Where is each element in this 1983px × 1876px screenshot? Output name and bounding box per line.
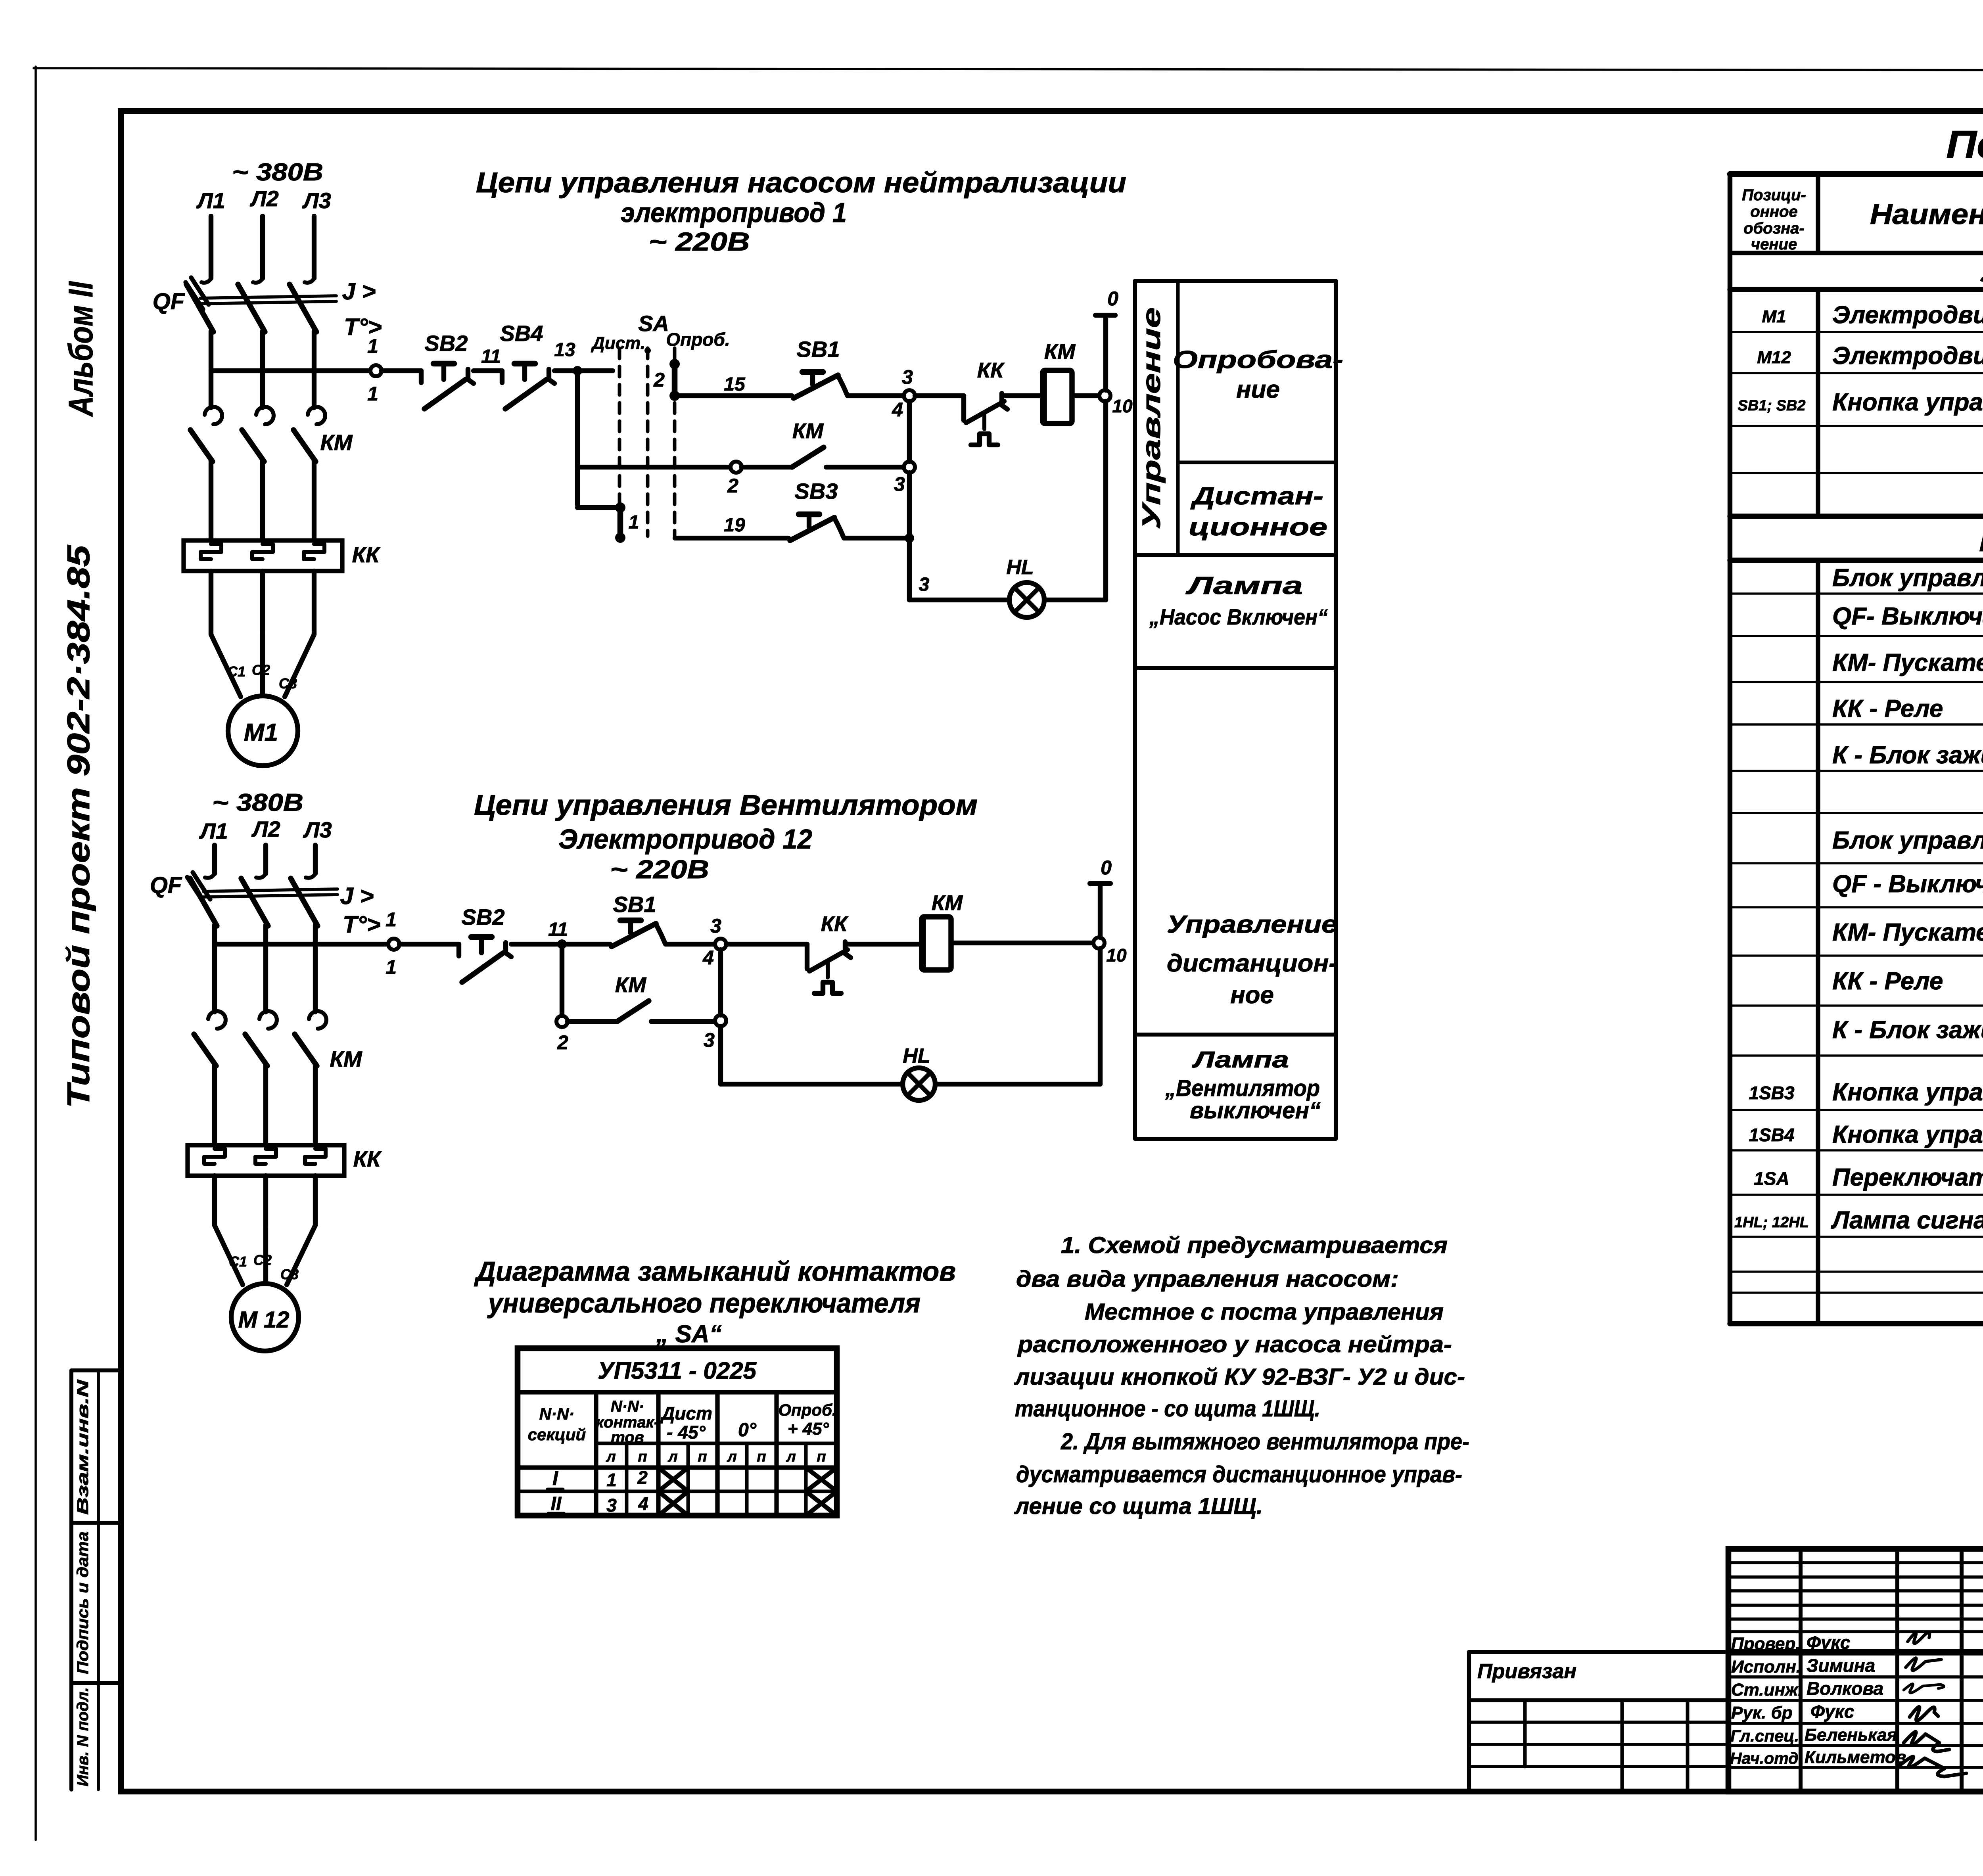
vertical to lamp row circuit 2	[718, 1026, 723, 1084]
svg-text:Блок управления: Блок управления	[1832, 564, 1983, 592]
selector switch SA dashed lines	[618, 348, 621, 536]
svg-text:дистанцион-: дистанцион-	[1167, 950, 1337, 977]
svg-text:10: 10	[1106, 945, 1127, 966]
svg-text:Кнопка управления: Кнопка управления	[1832, 389, 1983, 416]
vertical node10 to lamp row circuit 2	[1098, 949, 1103, 1084]
svg-text:SB1: SB1	[613, 892, 656, 917]
svg-text:М 12: М 12	[238, 1307, 290, 1333]
svg-text:КК - Реле: КК - Реле	[1832, 695, 1943, 722]
svg-text:4: 4	[892, 399, 903, 421]
svg-text:1: 1	[629, 512, 639, 533]
svg-text:4: 4	[702, 947, 714, 969]
SA contact 1 bar	[615, 502, 625, 513]
svg-text:л: л	[727, 1449, 737, 1465]
svg-text:Л3: Л3	[302, 188, 331, 213]
svg-text:Дист.: Дист.	[591, 333, 645, 353]
svg-text:HL: HL	[1006, 556, 1034, 579]
breaker QF circuit 1 pole L2	[260, 216, 265, 278]
svg-text:Ст.инж.: Ст.инж.	[1731, 1680, 1803, 1700]
svg-text:ное: ное	[1230, 981, 1274, 1009]
svg-text:онное: онное	[1750, 203, 1797, 220]
svg-text:Фукс: Фукс	[1810, 1701, 1854, 1722]
motor M12	[231, 1284, 299, 1351]
svg-text:13: 13	[554, 339, 575, 360]
title block vertical lines signature part	[1799, 1549, 1803, 1792]
svg-text:Электродвигатель: Электродвигатель	[1832, 301, 1983, 329]
svg-text:QF: QF	[150, 872, 182, 898]
svg-text:два вида управления насосом: два вида управления насосом:	[1016, 1266, 1399, 1292]
svg-text:Кнопка управления: Кнопка управления	[1832, 1121, 1983, 1148]
svg-text:Взам.инв.N: Взам.инв.N	[74, 1379, 92, 1515]
svg-text:SB2: SB2	[425, 331, 468, 356]
svg-text:SB4: SB4	[500, 321, 543, 346]
svg-text:Волкова: Волкова	[1807, 1678, 1883, 1699]
svg-text:Подпись и дата: Подпись и дата	[74, 1531, 92, 1674]
SA closed contact X marks	[658, 1468, 688, 1491]
svg-text:J >: J >	[340, 883, 374, 909]
contactor KM main contacts circuit 2 pole L3	[309, 1011, 326, 1029]
svg-text:Цепи управления Вентилятором: Цепи управления Вентилятором	[474, 789, 978, 821]
svg-text:КМ: КМ	[330, 1046, 362, 1071]
thermal relay KK heater box circuit 1	[184, 540, 342, 571]
SA table row divider	[518, 1490, 837, 1493]
svg-text:п: п	[638, 1449, 647, 1465]
wire KK to KM coil circuit 2	[847, 942, 922, 947]
breaker QF circuit 2 pole L1	[212, 845, 217, 874]
breaker QF circuit 2 pole L3	[313, 845, 318, 874]
svg-text:КК - Реле: КК - Реле	[1832, 968, 1943, 995]
sheet edge line left	[35, 67, 37, 1840]
svg-text:1: 1	[385, 908, 397, 931]
svg-text:J >: J >	[342, 278, 376, 305]
svg-text:0: 0	[1101, 857, 1112, 879]
svg-text:„Насос Включен“: „Насос Включен“	[1149, 604, 1328, 629]
neutral bus 0 circuit 1	[1095, 313, 1115, 318]
svg-text:2: 2	[637, 1467, 648, 1488]
svg-text:Л3: Л3	[303, 817, 332, 842]
svg-text:11: 11	[548, 919, 568, 940]
svg-text:п: п	[817, 1449, 826, 1465]
svg-text:2: 2	[653, 369, 665, 391]
breaker QF circuit 1 pole L1	[209, 216, 213, 278]
svg-text:1SB4: 1SB4	[1749, 1125, 1794, 1145]
svg-text:КК: КК	[821, 912, 849, 936]
junction 11 circuit 2	[557, 939, 567, 949]
svg-text:танционное - со щита 1ШЩ.: танционное - со щита 1ШЩ.	[1015, 1396, 1320, 1422]
svg-text:QF: QF	[153, 289, 185, 314]
svg-text:2: 2	[557, 1031, 568, 1054]
contactor KM main contacts circuit 2 pole L1	[208, 1011, 226, 1029]
node 3 circuit 1 row 1	[904, 390, 915, 401]
svg-text:п: п	[757, 1449, 766, 1465]
SA contact 2 bar	[669, 359, 680, 369]
svg-text:ние: ние	[1236, 376, 1280, 403]
svg-text:тов: тов	[611, 1429, 644, 1446]
breaker QF linkage bar	[200, 296, 336, 298]
breaker QF handle stroke	[186, 282, 203, 309]
svg-text:Л1: Л1	[199, 818, 228, 843]
node 3 circuit 2 row 1	[715, 939, 726, 950]
svg-text:3: 3	[704, 1029, 715, 1051]
svg-text:Лампа: Лампа	[1185, 572, 1303, 600]
svg-text:Инв. N подл.: Инв. N подл.	[74, 1687, 92, 1786]
svg-text:1: 1	[385, 956, 397, 978]
motor leads circuit 2	[212, 1176, 217, 1225]
contactor KM main contacts circuit 1 pole L2	[256, 407, 274, 424]
control tap wire circuit 1	[211, 368, 371, 373]
svg-text:Управление: Управление	[1137, 307, 1166, 529]
svg-text:М1: М1	[1762, 307, 1786, 326]
wire coil to node 10 circuit 2	[951, 941, 1093, 945]
element table column lines	[1816, 174, 1820, 253]
breaker QF handle stroke circuit 2	[187, 877, 205, 904]
svg-text:Наименование: Наименование	[1870, 199, 1983, 230]
margin stamp table	[71, 1368, 121, 1372]
svg-text:QF - Выключатель: QF - Выключатель	[1832, 870, 1983, 898]
svg-text:КК: КК	[352, 542, 381, 567]
svg-text:2. Для вытяжного вентилятора: 2. Для вытяжного вентилятора пре-	[1061, 1429, 1469, 1454]
svg-text:1HL; 12HL: 1HL; 12HL	[1734, 1214, 1809, 1231]
annotation boxes column	[1135, 279, 1336, 283]
svg-text:Привязан: Привязан	[1477, 1660, 1576, 1683]
vertical between row1 and row2 nodes	[907, 401, 912, 462]
svg-text:1: 1	[367, 383, 378, 405]
svg-text:Дист: Дист	[660, 1403, 712, 1424]
svg-text:QF- Выключатель: QF- Выключатель	[1832, 603, 1983, 630]
contactor KM main contacts circuit 2 pole L2	[259, 1011, 277, 1029]
element table section band U mekhanizma	[1730, 287, 1983, 292]
wire 15 to SB1	[675, 393, 792, 398]
SA table outer box	[518, 1348, 837, 1516]
SA table column lines	[594, 1392, 598, 1516]
vertical between circuit2 nodes	[718, 950, 723, 1015]
svg-text:1SB3: 1SB3	[1749, 1083, 1794, 1103]
node 1 circuit 2	[388, 939, 399, 950]
motor M1	[228, 696, 298, 766]
svg-text:КК: КК	[977, 358, 1005, 382]
svg-text:3: 3	[919, 574, 930, 595]
lamp row wire circuit 2	[721, 1082, 903, 1087]
wire node1 to SB2	[382, 368, 421, 373]
svg-text:К - Блок зажимов: К - Блок зажимов	[1832, 742, 1983, 769]
svg-text:выключен“: выключен“	[1190, 1098, 1321, 1123]
SA table title row	[518, 1390, 837, 1394]
node 3 circuit 2 row 2	[715, 1015, 726, 1026]
svg-text:обозна-: обозна-	[1743, 220, 1805, 237]
wire coil to node 10	[1072, 393, 1099, 398]
svg-text:КМ- Пускатель: КМ- Пускатель	[1832, 919, 1983, 946]
SA table sub column lines	[625, 1443, 629, 1516]
svg-text:ление со щита 1ШЩ.: ление со щита 1ШЩ.	[1014, 1493, 1263, 1519]
svg-text:Лампа сигнальная: Лампа сигнальная	[1831, 1207, 1983, 1234]
svg-text:Диаграмма замыканий контакто: Диаграмма замыканий контактов	[474, 1256, 956, 1287]
svg-text:КМ: КМ	[615, 973, 646, 997]
svg-text:Электропривод 12: Электропривод 12	[558, 824, 812, 855]
svg-text:Л2: Л2	[251, 816, 280, 841]
svg-text:КМ: КМ	[320, 430, 353, 455]
svg-text:Цепи управления насосом ней: Цепи управления насосом нейтрализации	[476, 167, 1126, 199]
svg-text:КМ- Пускатель: КМ- Пускатель	[1832, 649, 1983, 676]
svg-text:Блок управления: Блок управления	[1832, 827, 1983, 854]
element table section band Shchit 1ShchShch	[1730, 514, 1983, 519]
wire row 2 to node 2	[577, 465, 731, 469]
svg-text:19: 19	[724, 515, 745, 536]
svg-text:КМ: КМ	[1044, 340, 1076, 364]
svg-text:М1: М1	[244, 719, 278, 746]
svg-text:С1: С1	[229, 1253, 247, 1270]
title block outer	[1728, 1549, 1983, 1792]
SA table sub header line	[596, 1442, 837, 1445]
svg-text:КМ: КМ	[792, 419, 824, 443]
svg-text:М12: М12	[1757, 348, 1791, 367]
svg-text:Беленькая: Беленькая	[1805, 1725, 1897, 1745]
svg-text:0: 0	[1107, 287, 1118, 310]
svg-text:3: 3	[606, 1495, 617, 1516]
svg-text:Опроб.: Опроб.	[666, 329, 730, 350]
svg-text:чение: чение	[1751, 236, 1797, 253]
vertical row2 node down	[907, 473, 912, 600]
contactor KM main contacts circuit 1 pole L3	[308, 407, 325, 424]
wire SB3 to junction	[844, 536, 909, 540]
svg-text:Исполн.: Исполн.	[1731, 1657, 1801, 1677]
svg-text:К - Блок зажимов: К - Блок зажимов	[1832, 1016, 1983, 1044]
svg-text:- 45°: - 45°	[667, 1422, 706, 1443]
svg-text:КК: КК	[353, 1146, 382, 1171]
svg-text:~ 220В: ~ 220В	[610, 855, 709, 884]
svg-text:Кильметов: Кильметов	[1805, 1748, 1906, 1767]
svg-text:Позици-: Позици-	[1742, 186, 1806, 204]
svg-text:~ 220В: ~ 220В	[649, 227, 750, 256]
svg-text:3: 3	[902, 366, 913, 388]
node 3 circuit 1 row 2	[904, 462, 915, 473]
node 10 circuit 2	[1093, 937, 1105, 949]
privyazan block	[1469, 1650, 1728, 1654]
svg-text:лизации кнопкой КУ 92-ВЗГ- У: лизации кнопкой КУ 92-ВЗГ- У2 и дис-	[1014, 1364, 1465, 1390]
node 10 circuit 1	[1099, 390, 1110, 401]
wire node3 to KK circuit 2	[726, 942, 807, 947]
svg-text:3: 3	[894, 473, 905, 495]
svg-text:Управление: Управление	[1167, 911, 1337, 938]
svg-text:Зимина: Зимина	[1807, 1655, 1875, 1676]
svg-text:Опроб.: Опроб.	[778, 1401, 836, 1419]
svg-text:Дистан-: Дистан-	[1190, 483, 1323, 510]
svg-text:Электродвигатель: Электродвигатель	[1832, 342, 1983, 370]
breaker QF circuit 2 pole L2	[263, 845, 268, 874]
svg-text:~ 380В: ~ 380В	[232, 159, 323, 186]
svg-text:0°: 0°	[738, 1420, 757, 1441]
svg-text:расположенного у насоса ней: расположенного у насоса нейтра-	[1017, 1332, 1452, 1357]
svg-text:Перечень элементов: Перечень элементов	[1946, 123, 1983, 166]
element table outer and header	[1730, 171, 1983, 177]
svg-text:Гл.спец.: Гл.спец.	[1730, 1727, 1799, 1745]
svg-text:SB1: SB1	[797, 337, 840, 362]
svg-text:1. Схемой предусматривается: 1. Схемой предусматривается	[1061, 1232, 1448, 1258]
svg-text:SB2: SB2	[462, 904, 505, 929]
node 2 circuit 1	[731, 462, 742, 473]
wire SB4 to node 13	[554, 368, 613, 373]
wire node3 to KK	[915, 393, 964, 398]
svg-text:КМ: КМ	[932, 891, 963, 915]
svg-text:УП5311 - 0225: УП5311 - 0225	[598, 1357, 757, 1384]
svg-text:Типовой проект 902-2·384.85: Типовой проект 902-2·384.85	[61, 544, 96, 1108]
wire SB2 to junction 11	[511, 942, 610, 947]
svg-text:15: 15	[724, 374, 746, 395]
wire SB1 to node 3 circuit 2	[665, 942, 715, 947]
wire SB2 to SB4 with label 11	[474, 368, 502, 373]
svg-text:11: 11	[481, 346, 501, 367]
neutral bus 0 circuit 2	[1090, 881, 1110, 886]
vertical node10 to lamp row	[1103, 401, 1108, 600]
node 1 circuit 1	[370, 365, 382, 376]
svg-text:Лампа: Лампа	[1192, 1047, 1289, 1073]
svg-text:Щит 1ШЩ: Щит 1ШЩ	[1979, 524, 1983, 558]
svg-text:Л1: Л1	[196, 188, 225, 213]
svg-text:II: II	[551, 1493, 562, 1514]
privyazan grid	[1523, 1700, 1527, 1767]
svg-text:T°>: T°>	[343, 911, 381, 938]
svg-text:Нач.отд.: Нач.отд.	[1730, 1749, 1803, 1767]
control tap wire circuit 2	[215, 942, 388, 947]
wire lamp to bus circuit 2	[935, 1082, 1100, 1087]
svg-text:л: л	[786, 1449, 796, 1465]
svg-text:2: 2	[727, 475, 738, 497]
svg-text:SA: SA	[638, 311, 669, 336]
svg-text:л: л	[667, 1449, 678, 1465]
node 13	[573, 366, 582, 376]
svg-text:1: 1	[367, 335, 378, 357]
svg-text:~ 380В: ~ 380В	[212, 789, 303, 816]
title block signature rows	[1728, 1630, 1983, 1633]
svg-text:1SA: 1SA	[1754, 1168, 1789, 1189]
svg-text:Местное с поста управления: Местное с поста управления	[1085, 1299, 1444, 1325]
svg-text:1: 1	[606, 1470, 617, 1490]
signatures scribbles	[1908, 1633, 1929, 1644]
svg-text:Переключатель: Переключатель	[1832, 1164, 1983, 1191]
thermal relay KK heater box circuit 2	[188, 1145, 344, 1176]
svg-text:С3: С3	[280, 1266, 299, 1282]
svg-text:У механизма: У механизма	[1979, 255, 1983, 288]
svg-text:I: I	[552, 1467, 558, 1489]
wire 19 to SB3	[675, 536, 788, 540]
wire SB1 to node 3	[848, 393, 904, 398]
svg-text:секций: секций	[528, 1425, 586, 1444]
svg-text:С2: С2	[252, 662, 270, 678]
breaker QF circuit 1 pole L3	[312, 216, 316, 278]
svg-text:электропривод 1: электропривод 1	[621, 197, 847, 228]
svg-text:С1: С1	[227, 663, 245, 680]
svg-text:+ 45°: + 45°	[788, 1419, 829, 1439]
vertical junction11 down circuit 2	[560, 944, 564, 1016]
contactor KM main contacts circuit 1 pole L1	[205, 407, 222, 424]
element table row lines	[1732, 331, 1983, 333]
svg-text:10: 10	[1112, 396, 1133, 416]
title block narrow top rows	[1728, 1561, 1983, 1564]
sheet edge line top	[34, 68, 1983, 71]
svg-text:Рук. бр: Рук. бр	[1731, 1703, 1793, 1723]
svg-text:„ SA“: „ SA“	[656, 1320, 721, 1348]
svg-text:универсального переключателя: универсального переключателя	[487, 1288, 921, 1318]
motor leads circuit 1	[209, 571, 213, 634]
node 2 circuit 2	[556, 1016, 568, 1027]
svg-text:Альбом II: Альбом II	[62, 281, 100, 417]
svg-text:С2: С2	[253, 1252, 272, 1268]
wire KK to KM coil	[1003, 393, 1043, 398]
svg-text:л: л	[606, 1449, 616, 1465]
svg-text:N·N·: N·N·	[539, 1405, 575, 1423]
wire lamp to bus	[1044, 598, 1106, 602]
svg-text:Кнопка управления: Кнопка управления	[1832, 1079, 1983, 1106]
SA table header bottom	[518, 1465, 837, 1470]
svg-text:3: 3	[710, 915, 721, 937]
svg-text:п: п	[698, 1449, 707, 1465]
svg-text:Опробова-: Опробова-	[1173, 346, 1343, 374]
svg-text:HL: HL	[903, 1044, 930, 1067]
svg-text:N·N·: N·N·	[611, 1398, 644, 1415]
breaker QF linkage bar circuit 2	[203, 889, 338, 891]
wire node1 to SB2 circuit 2	[399, 942, 459, 947]
svg-text:4: 4	[638, 1493, 648, 1514]
svg-text:SB3: SB3	[795, 479, 838, 504]
svg-text:ционное: ционное	[1189, 514, 1327, 541]
svg-text:С3: С3	[279, 675, 297, 692]
wire node13 branch to SA contact 1	[577, 505, 620, 510]
svg-text:SB1; SB2: SB1; SB2	[1738, 397, 1805, 414]
svg-text:Л2: Л2	[249, 186, 279, 211]
svg-text:дусматривается дистанционное: дусматривается дистанционное управ-	[1016, 1462, 1462, 1487]
vertical node13 down	[575, 371, 580, 505]
